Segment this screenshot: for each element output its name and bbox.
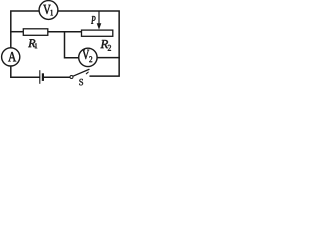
wire: left vertical lower (ammeter to bottom wire) + bottom-left segment — [11, 66, 40, 77]
wire: V2 right lead to right vertical — [97, 57, 119, 59]
label P — [91, 16, 95, 24]
resistor R1 — [23, 29, 48, 36]
wire: left vertical upper + top wire left segment — [11, 11, 39, 48]
voltmeter V1 — [39, 1, 58, 20]
switch S — [70, 69, 89, 78]
wire: R1 right lead to rheostat R2 left end — [48, 31, 82, 33]
wiper arrow of R2 — [97, 11, 102, 30]
wire: branch from node M down to voltmeter V2 — [65, 32, 79, 58]
wire: top wire right segment + right vertical + bottom-right segment — [58, 11, 119, 76]
battery cell — [40, 70, 43, 84]
label R1 — [28, 39, 37, 48]
wire: battery to switch segment — [44, 76, 70, 78]
wire: middle wire from left vertical to R1 — [11, 31, 23, 33]
rheostat R2 — [82, 30, 113, 36]
voltmeter V2 — [79, 48, 97, 66]
label S — [79, 79, 83, 85]
label R2 — [100, 40, 111, 51]
ammeter A — [2, 48, 20, 66]
switch contact tick — [86, 72, 88, 74]
